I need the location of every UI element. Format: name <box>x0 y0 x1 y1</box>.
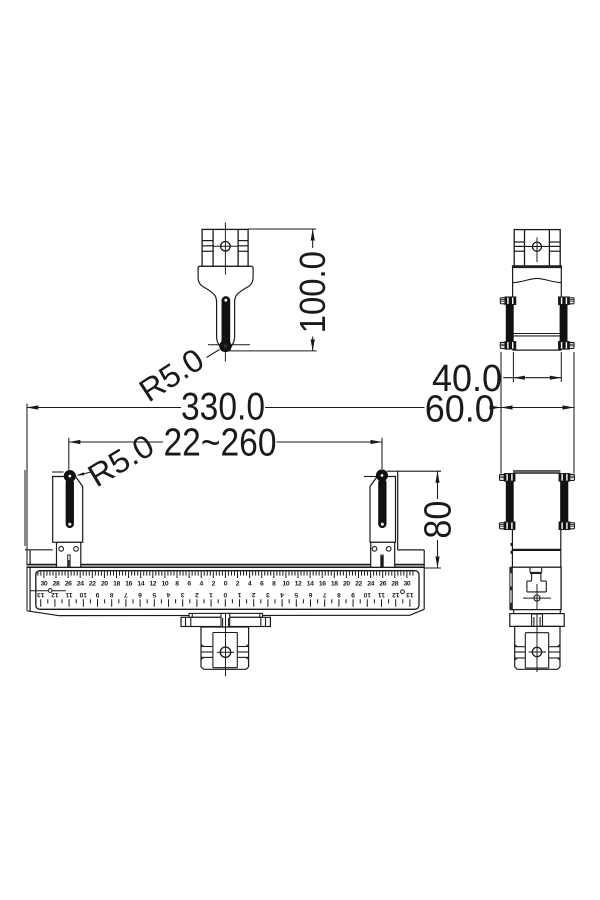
svg-text:80: 80 <box>418 501 460 539</box>
svg-text:4: 4 <box>200 581 204 588</box>
svg-text:100.0: 100.0 <box>292 251 333 333</box>
svg-text:24: 24 <box>367 581 374 588</box>
svg-text:22: 22 <box>89 581 96 588</box>
svg-text:8: 8 <box>110 591 114 598</box>
svg-text:7: 7 <box>323 591 327 598</box>
svg-text:4: 4 <box>166 591 170 598</box>
svg-text:13: 13 <box>406 591 414 598</box>
svg-text:28: 28 <box>391 581 398 588</box>
svg-text:1: 1 <box>237 591 241 598</box>
svg-text:20: 20 <box>343 581 350 588</box>
svg-text:3: 3 <box>266 591 270 598</box>
svg-text:16: 16 <box>125 581 132 588</box>
svg-text:24: 24 <box>77 581 84 588</box>
svg-text:9: 9 <box>351 591 355 598</box>
svg-text:0: 0 <box>224 581 228 588</box>
svg-text:6: 6 <box>260 581 264 588</box>
svg-text:5: 5 <box>152 591 156 598</box>
svg-text:18: 18 <box>113 581 120 588</box>
svg-text:10: 10 <box>162 581 169 588</box>
svg-text:20: 20 <box>101 581 108 588</box>
svg-text:13: 13 <box>37 591 45 598</box>
svg-text:2: 2 <box>252 591 256 598</box>
svg-text:5: 5 <box>294 591 298 598</box>
svg-text:12: 12 <box>149 581 156 588</box>
svg-text:2: 2 <box>195 591 199 598</box>
svg-text:16: 16 <box>319 581 326 588</box>
svg-text:14: 14 <box>137 581 144 588</box>
svg-text:0: 0 <box>223 591 227 598</box>
svg-text:10: 10 <box>363 591 371 598</box>
svg-text:60.0: 60.0 <box>425 388 495 430</box>
svg-text:22~260: 22~260 <box>164 422 277 465</box>
svg-text:26: 26 <box>65 581 72 588</box>
svg-text:26: 26 <box>379 581 386 588</box>
svg-text:11: 11 <box>378 591 385 598</box>
svg-text:30: 30 <box>404 581 411 588</box>
svg-text:6: 6 <box>308 591 312 598</box>
svg-text:30: 30 <box>41 581 48 588</box>
svg-text:12: 12 <box>295 581 302 588</box>
svg-text:10: 10 <box>283 581 290 588</box>
svg-text:14: 14 <box>307 581 314 588</box>
svg-text:8: 8 <box>337 591 341 598</box>
svg-text:10: 10 <box>79 591 87 598</box>
svg-text:11: 11 <box>65 591 72 598</box>
svg-text:4: 4 <box>280 591 284 598</box>
svg-text:12: 12 <box>392 591 400 598</box>
svg-text:7: 7 <box>124 591 128 598</box>
svg-text:28: 28 <box>53 581 60 588</box>
svg-text:6: 6 <box>138 591 142 598</box>
svg-text:18: 18 <box>331 581 338 588</box>
svg-text:12: 12 <box>51 591 59 598</box>
svg-text:9: 9 <box>95 591 99 598</box>
svg-text:22: 22 <box>355 581 362 588</box>
svg-text:1: 1 <box>209 591 213 598</box>
svg-text:3: 3 <box>181 591 185 598</box>
